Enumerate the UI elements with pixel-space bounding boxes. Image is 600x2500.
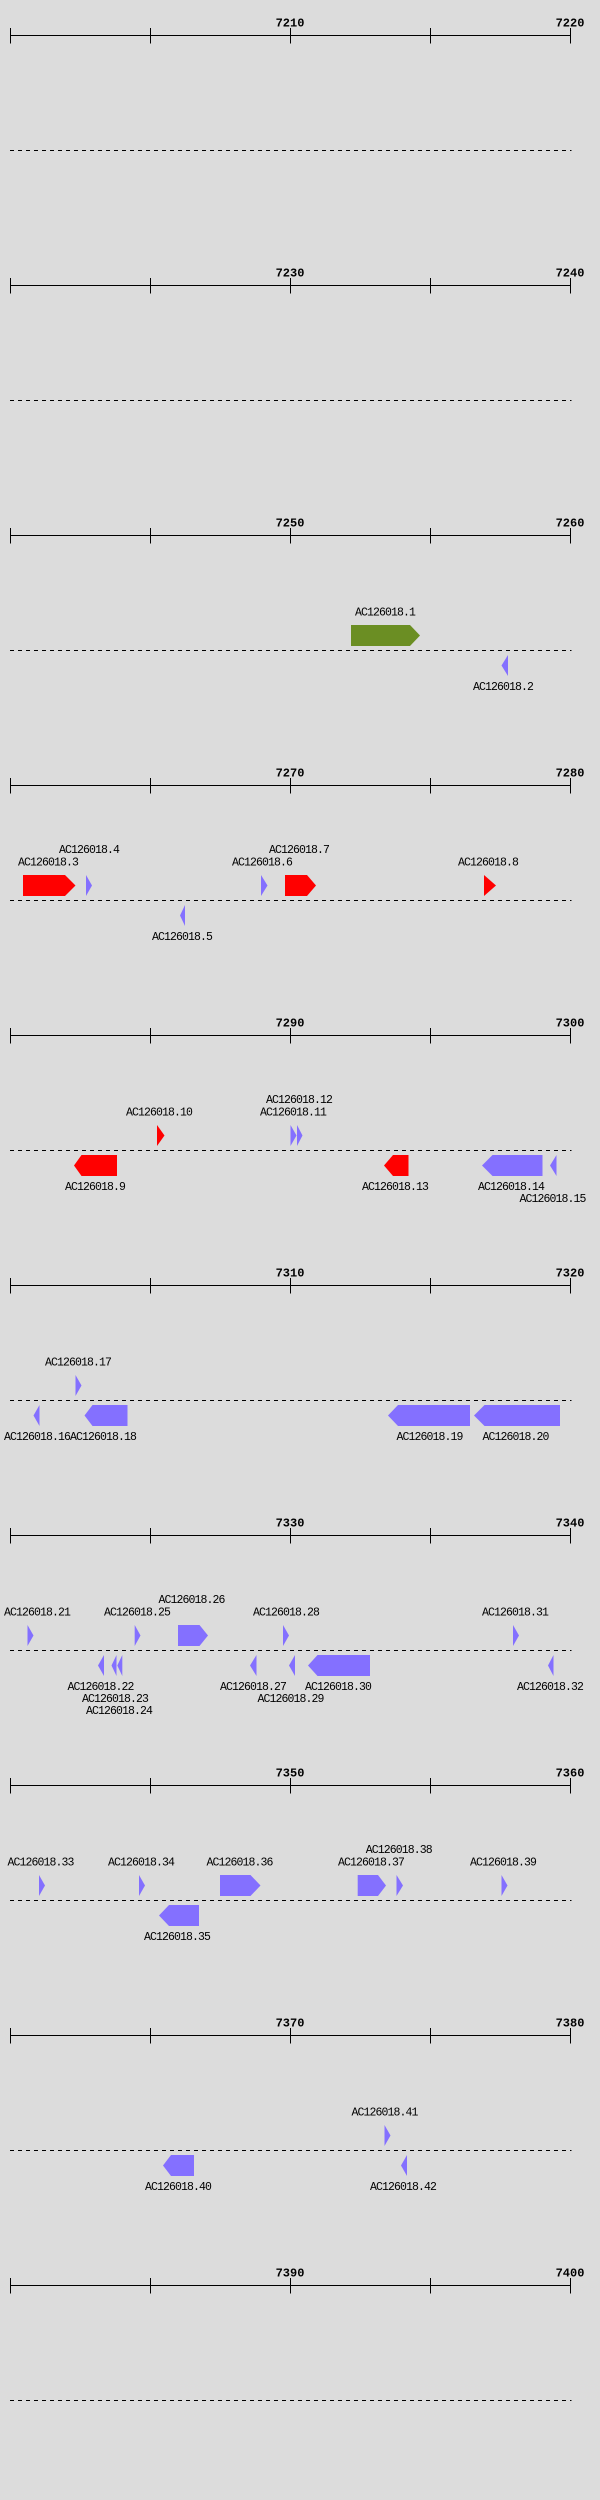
svg-text:AC126018.21: AC126018.21: [4, 1607, 71, 1620]
svg-text:7280: 7280: [556, 767, 585, 781]
gene AC126018.21 (+ strand): [28, 1625, 34, 1646]
svg-text:AC126018.10: AC126018.10: [126, 1107, 193, 1120]
svg-text:AC126018.4: AC126018.4: [59, 844, 120, 857]
svg-text:AC126018.19: AC126018.19: [397, 1431, 464, 1444]
gene AC126018.5 (- strand): [180, 905, 185, 926]
gene AC126018.23 (- strand): [112, 1655, 117, 1676]
gene AC126018.17 (+ strand): [76, 1375, 82, 1396]
gene AC126018.28 (+ strand): [283, 1625, 289, 1646]
svg-text:AC126018.8: AC126018.8: [458, 857, 519, 870]
svg-text:7300: 7300: [556, 1017, 585, 1031]
panel 6 ruler (7300-7320): [10, 1278, 571, 1294]
svg-text:AC126018.32: AC126018.32: [517, 1681, 584, 1694]
gene AC126018.19 (- strand): [388, 1405, 470, 1426]
gene AC126018.20 (- strand): [474, 1405, 560, 1426]
svg-text:AC126018.18: AC126018.18: [70, 1431, 137, 1444]
gene AC126018.4 (+ strand): [86, 875, 92, 896]
gene AC126018.33 (+ strand): [39, 1875, 45, 1896]
gene AC126018.2 (- strand): [502, 655, 509, 676]
panel 8 ruler (7340-7360): [10, 1778, 571, 1794]
svg-text:AC126018.17: AC126018.17: [45, 1357, 111, 1370]
gene AC126018.34 (+ strand): [139, 1875, 145, 1896]
svg-text:7250: 7250: [276, 517, 305, 531]
gene AC126018.7 (+ strand): [285, 875, 316, 896]
gene AC126018.29 (- strand): [289, 1655, 295, 1676]
gene AC126018.32 (- strand): [548, 1655, 554, 1676]
gene AC126018.13 (- strand): [384, 1155, 409, 1176]
svg-text:AC126018.9: AC126018.9: [65, 1181, 126, 1194]
svg-text:AC126018.16: AC126018.16: [4, 1431, 71, 1444]
svg-text:AC126018.15: AC126018.15: [520, 1193, 587, 1206]
svg-text:AC126018.39: AC126018.39: [470, 1857, 537, 1870]
gene AC126018.12 (+ strand): [297, 1125, 303, 1146]
svg-text:AC126018.6: AC126018.6: [232, 857, 293, 870]
svg-text:AC126018.7: AC126018.7: [269, 844, 329, 857]
svg-text:AC126018.24: AC126018.24: [86, 1705, 153, 1718]
svg-text:AC126018.29: AC126018.29: [258, 1693, 325, 1706]
panel 2 baseline (dashed): [10, 400, 572, 402]
gene AC126018.42 (- strand): [401, 2155, 407, 2176]
gene AC126018.10 (+ strand): [157, 1125, 165, 1146]
gene AC126018.39 (+ strand): [502, 1875, 508, 1896]
gene AC126018.30 (- strand): [308, 1655, 370, 1676]
svg-text:7370: 7370: [276, 2017, 305, 2031]
gene AC126018.36 (+ strand): [220, 1875, 261, 1896]
panel 9 baseline (dashed): [10, 2150, 572, 2152]
svg-text:AC126018.34: AC126018.34: [108, 1857, 175, 1870]
svg-text:7260: 7260: [556, 517, 585, 531]
gene AC126018.40 (- strand): [163, 2155, 194, 2176]
svg-text:AC126018.31: AC126018.31: [482, 1607, 549, 1620]
svg-text:AC126018.13: AC126018.13: [362, 1181, 429, 1194]
svg-text:7220: 7220: [556, 17, 585, 31]
svg-text:7350: 7350: [276, 1767, 305, 1781]
svg-text:AC126018.3: AC126018.3: [18, 857, 79, 870]
svg-text:7400: 7400: [556, 2267, 585, 2281]
gene AC126018.1 (+ strand): [351, 625, 420, 646]
gene AC126018.38 (+ strand): [397, 1875, 404, 1896]
svg-text:7290: 7290: [276, 1017, 305, 1031]
panel 9 ruler (7360-7380): [10, 2028, 571, 2044]
svg-text:AC126018.33: AC126018.33: [8, 1857, 75, 1870]
svg-text:7270: 7270: [276, 767, 305, 781]
svg-text:7230: 7230: [276, 267, 305, 281]
panel 1 ruler (7200-7220): [10, 28, 571, 44]
gene AC126018.8 (+ strand): [484, 875, 496, 896]
gene AC126018.31 (+ strand): [513, 1625, 519, 1646]
svg-text:AC126018.41: AC126018.41: [352, 2107, 419, 2120]
svg-text:7380: 7380: [556, 2017, 585, 2031]
svg-text:AC126018.40: AC126018.40: [145, 2181, 212, 2194]
svg-text:AC126018.1: AC126018.1: [355, 607, 416, 620]
svg-text:7390: 7390: [276, 2267, 305, 2281]
svg-text:AC126018.20: AC126018.20: [483, 1431, 550, 1444]
gene AC126018.25 (+ strand): [135, 1625, 141, 1646]
panel 5 ruler (7280-7300): [10, 1028, 571, 1044]
svg-text:7310: 7310: [276, 1267, 305, 1281]
svg-text:AC126018.11: AC126018.11: [260, 1107, 327, 1120]
svg-text:AC126018.30: AC126018.30: [305, 1681, 372, 1694]
svg-text:7330: 7330: [276, 1517, 305, 1531]
svg-text:AC126018.35: AC126018.35: [144, 1931, 211, 1944]
gene AC126018.26 (+ strand): [178, 1625, 208, 1646]
gene AC126018.16 (- strand): [34, 1405, 40, 1426]
panel 7 ruler (7320-7340): [10, 1528, 571, 1544]
panel 4 ruler (7260-7280): [10, 778, 571, 794]
panel 1 baseline (dashed): [10, 150, 572, 152]
panel 6 baseline (dashed): [10, 1400, 572, 1402]
gene AC126018.27 (- strand): [250, 1655, 257, 1676]
svg-text:AC126018.2: AC126018.2: [473, 681, 534, 694]
gene AC126018.14 (- strand): [482, 1155, 543, 1176]
gene AC126018.3 (+ strand): [23, 875, 76, 896]
gene AC126018.18 (- strand): [85, 1405, 128, 1426]
svg-text:7240: 7240: [556, 267, 585, 281]
panel 10 ruler (7380-7400): [10, 2278, 571, 2294]
panel 3 baseline (dashed): [10, 650, 572, 652]
svg-text:7340: 7340: [556, 1517, 585, 1531]
gene AC126018.11 (+ strand): [291, 1125, 297, 1146]
gene AC126018.41 (+ strand): [385, 2125, 391, 2146]
svg-text:AC126018.38: AC126018.38: [366, 1844, 433, 1857]
panel 5 baseline (dashed): [10, 1150, 572, 1152]
gene AC126018.22 (- strand): [98, 1655, 104, 1676]
svg-text:AC126018.37: AC126018.37: [338, 1857, 404, 1870]
svg-text:7320: 7320: [556, 1267, 585, 1281]
gene AC126018.37 (+ strand): [358, 1875, 386, 1896]
svg-text:AC126018.42: AC126018.42: [370, 2181, 437, 2194]
panel 7 baseline (dashed): [10, 1650, 572, 1652]
svg-text:AC126018.12: AC126018.12: [266, 1094, 333, 1107]
svg-text:AC126018.25: AC126018.25: [104, 1607, 171, 1620]
panel 8 baseline (dashed): [10, 1900, 572, 1902]
gene AC126018.6 (+ strand): [261, 875, 268, 896]
svg-text:7210: 7210: [276, 17, 305, 31]
gene AC126018.9 (- strand): [74, 1155, 117, 1176]
svg-text:AC126018.36: AC126018.36: [207, 1857, 274, 1870]
panel 10 baseline (dashed): [10, 2400, 572, 2402]
gene AC126018.15 (- strand): [550, 1155, 557, 1176]
gene AC126018.35 (- strand): [159, 1905, 199, 1926]
svg-text:AC126018.28: AC126018.28: [253, 1607, 320, 1620]
svg-text:AC126018.5: AC126018.5: [152, 931, 213, 944]
svg-text:AC126018.26: AC126018.26: [159, 1594, 226, 1607]
panel 2 ruler (7220-7240): [10, 278, 571, 294]
svg-text:7360: 7360: [556, 1767, 585, 1781]
panel 3 ruler (7240-7260): [10, 528, 571, 544]
panel 4 baseline (dashed): [10, 900, 572, 902]
gene AC126018.24 (- strand): [117, 1655, 122, 1676]
